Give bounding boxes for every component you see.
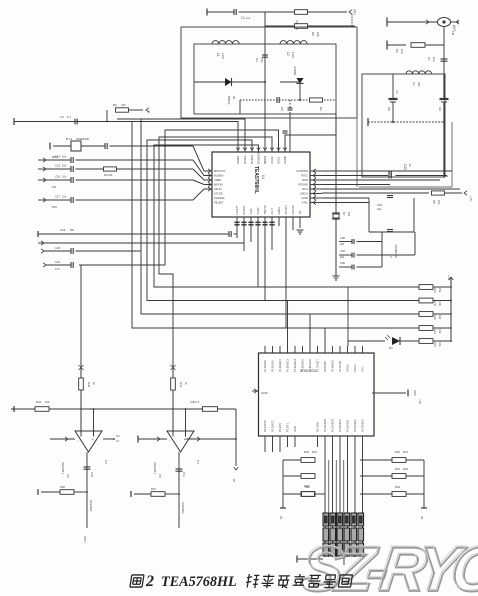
wire <box>239 11 295 13</box>
svg-text:STLED: STLED <box>214 192 223 196</box>
resistor R12 <box>419 312 433 317</box>
wire <box>308 11 348 13</box>
wire <box>165 493 179 495</box>
node +3V arrow <box>349 10 352 14</box>
RF input box <box>362 74 445 177</box>
svg-text:VCC: VCC <box>361 366 365 372</box>
svg-text:WREN: WREN <box>263 156 267 164</box>
capacitor C4 15p <box>262 54 268 56</box>
svg-text:R20: R20 <box>304 450 309 454</box>
wire <box>360 475 392 477</box>
wire <box>362 269 364 346</box>
bus wire 1 <box>132 122 419 329</box>
svg-text:P1.1/AIN1: P1.1/AIN1 <box>271 360 275 372</box>
resistor R31 <box>392 474 406 479</box>
svg-text:RFI2: RFI2 <box>302 178 308 182</box>
svg-text:C20: C20 <box>55 246 61 250</box>
watermark <box>298 535 478 596</box>
svg-text:1n: 1n <box>408 164 412 168</box>
svg-text:P1.4/ADC4: P1.4/ADC4 <box>293 358 297 372</box>
svg-text:RFI1: RFI1 <box>302 187 308 191</box>
inductor L3 <box>406 71 432 74</box>
wire <box>299 83 301 100</box>
wire <box>322 202 369 204</box>
svg-text:TEA5768HL: TEA5768HL <box>253 166 259 194</box>
svg-text:32.768KHZ: 32.768KHZ <box>394 244 398 258</box>
wire <box>129 109 144 111</box>
terminal <box>13 118 15 125</box>
wire <box>49 408 236 410</box>
wire <box>322 197 369 199</box>
svg-text:AFLIN: AFLIN <box>214 187 222 191</box>
wire <box>322 188 460 190</box>
node +3V amp1 <box>80 363 82 377</box>
svg-text:10k: 10k <box>438 302 442 307</box>
IC U1 TEA5768HL body <box>212 152 310 217</box>
svg-text:C8: C8 <box>387 107 391 111</box>
wire amp1 feed <box>80 265 82 430</box>
svg-text:SZ-RYC: SZ-RYC <box>296 534 478 596</box>
resistor R21 <box>301 474 315 479</box>
svg-text:2: 2 <box>145 573 154 590</box>
capacitor C17 <box>70 197 72 203</box>
svg-text:C16: C16 <box>55 175 61 179</box>
svg-text:P2.4/AD12: P2.4/AD12 <box>353 419 357 432</box>
svg-text:CPOUT: CPOUT <box>284 205 288 215</box>
svg-text:+3V: +3V <box>353 8 357 15</box>
svg-text:R11: R11 <box>433 302 437 307</box>
inductor L2 <box>280 41 307 44</box>
IC U1 bottom pin capacitors <box>234 221 239 223</box>
wire <box>243 217 245 251</box>
node VCC terminal <box>407 390 409 397</box>
wire <box>79 264 165 266</box>
svg-text:R40: R40 <box>87 382 91 388</box>
svg-text:SPK L: SPK L <box>83 536 87 544</box>
svg-text:100: 100 <box>400 49 404 54</box>
capacitor C25 22p <box>387 229 393 231</box>
wire <box>292 217 294 230</box>
svg-text:TEA5768HL: TEA5768HL <box>161 574 237 590</box>
svg-text:R13: R13 <box>433 329 437 334</box>
svg-text:10k: 10k <box>438 329 442 334</box>
wire diag <box>193 169 212 180</box>
resistor R45 <box>203 407 218 412</box>
terminal <box>130 491 132 497</box>
svg-text:C22: C22 <box>55 260 61 264</box>
svg-text:P2.1/ADC9: P2.1/ADC9 <box>331 418 335 432</box>
wire <box>359 447 361 460</box>
terminal <box>386 41 388 50</box>
svg-text:22p: 22p <box>340 243 345 246</box>
capacitor C5 <box>276 97 278 103</box>
svg-text:XTAL2: XTAL2 <box>346 364 350 372</box>
svg-text:R6 10k: R6 10k <box>104 173 113 177</box>
wire diag <box>193 189 212 200</box>
svg-text:R46: R46 <box>60 485 65 489</box>
svg-text:VAFR: VAFR <box>256 207 260 214</box>
resistor R4 100 <box>411 43 425 48</box>
svg-text:D3: D3 <box>389 346 393 350</box>
svg-text:U1: U1 <box>261 175 265 179</box>
svg-text:P1.5/ADC5: P1.5/ADC5 <box>301 358 305 372</box>
svg-text:PHASEF: PHASEF <box>214 196 225 200</box>
capacitor C40 <box>84 466 91 468</box>
wire <box>400 340 419 342</box>
svg-text:R31: R31 <box>403 450 408 454</box>
wire <box>93 409 95 431</box>
op-amp U4 TDA7050 <box>167 431 194 452</box>
svg-text:C4: C4 <box>255 58 259 62</box>
terminal <box>13 406 15 412</box>
svg-text:TMUTE: TMUTE <box>263 205 267 214</box>
wire rail <box>322 192 429 194</box>
resistor R6 <box>104 167 117 171</box>
svg-text:P2.5/AD13: P2.5/AD13 <box>361 419 365 432</box>
terminal <box>37 489 39 495</box>
wire <box>178 494 180 528</box>
wire <box>360 493 392 495</box>
wire <box>278 217 280 226</box>
node terminal <box>421 507 427 509</box>
svg-text:10n: 10n <box>62 175 67 179</box>
wire <box>335 114 337 210</box>
svg-text:FM: FM <box>451 31 455 36</box>
svg-text:AFLT: AFLT <box>270 208 274 215</box>
wire <box>264 217 266 301</box>
svg-text:P3.1/TXD: P3.1/TXD <box>338 361 342 372</box>
svg-text:U3: U3 <box>66 474 70 478</box>
varactor D1 BB910 <box>225 78 232 86</box>
resistor R22 <box>301 492 315 497</box>
input terminal <box>43 178 46 182</box>
wire <box>235 409 237 466</box>
wire <box>322 184 390 186</box>
bus wire 4 <box>154 145 419 287</box>
wire <box>74 491 87 493</box>
svg-text:R8: R8 <box>70 228 74 232</box>
node VCC input terminal <box>206 9 208 16</box>
svg-text:L4: L4 <box>395 90 399 94</box>
svg-text:2.2: 2.2 <box>246 16 251 20</box>
svg-text:PILDET: PILDET <box>214 201 224 205</box>
wire <box>282 460 284 506</box>
svg-text:BB910: BB910 <box>293 66 297 75</box>
ceramic filter F1 <box>71 141 81 151</box>
wire <box>335 220 337 276</box>
svg-text:C17: C17 <box>55 195 61 199</box>
resistor R20 <box>301 458 315 463</box>
wire <box>250 217 252 242</box>
svg-text:MPX: MPX <box>52 155 58 159</box>
svg-text:4.7u: 4.7u <box>55 267 61 271</box>
svg-text:10p: 10p <box>432 57 436 62</box>
wire <box>283 493 301 495</box>
svg-text:XTAL1: XTAL1 <box>353 364 357 372</box>
svg-text:P3.3/INT1: P3.3/INT1 <box>271 420 275 432</box>
connector feed wires <box>324 447 326 557</box>
wire <box>265 25 294 27</box>
tuner tank inner box <box>194 44 336 114</box>
svg-text:10n: 10n <box>62 195 67 199</box>
capacitor C15 <box>70 166 72 172</box>
bus wire 2 <box>117 119 245 152</box>
svg-text:P1.3/ADC3: P1.3/ADC3 <box>286 358 290 372</box>
svg-text:P3.7/RD: P3.7/RD <box>316 422 320 432</box>
capacitor C29 <box>351 253 353 258</box>
svg-text:AGND: AGND <box>283 156 287 164</box>
op-amp U3 TDA7050 <box>75 431 102 452</box>
svg-text:C2: C2 <box>116 434 120 438</box>
svg-text:XTAL: XTAL <box>301 201 308 205</box>
svg-text:+3V: +3V <box>418 399 422 404</box>
antenna jack J1 <box>438 18 451 27</box>
wire <box>433 313 451 315</box>
wire <box>81 145 105 147</box>
svg-text:RST/VPP: RST/VPP <box>323 361 327 372</box>
resistor R13 <box>419 326 433 331</box>
svg-text:LIN: LIN <box>52 185 56 189</box>
wire <box>433 327 451 329</box>
svg-text:VAFL: VAFL <box>249 207 253 214</box>
svg-text:C3: C3 <box>60 115 64 119</box>
wire <box>322 175 388 177</box>
inductor L1 <box>212 41 239 44</box>
wire <box>392 102 394 122</box>
svg-text:LOOPSW: LOOPSW <box>296 169 308 173</box>
svg-text:C24: C24 <box>377 203 383 207</box>
node arrow <box>234 467 238 470</box>
wire <box>271 217 273 250</box>
svg-text:RFGND: RFGND <box>298 183 308 187</box>
input terminal <box>43 158 46 162</box>
terminal <box>296 556 298 563</box>
svg-text:C28: C28 <box>340 236 345 240</box>
capacitor C24 22p <box>387 195 393 197</box>
capacitor C26 <box>388 171 390 177</box>
svg-text:L3: L3 <box>412 82 416 86</box>
svg-text:C41: C41 <box>182 472 186 477</box>
svg-text:P2.0/ADC8: P2.0/ADC8 <box>323 418 327 432</box>
svg-text:C30: C30 <box>340 261 345 265</box>
svg-text:+3V: +3V <box>469 196 473 201</box>
svg-text:B F1: B F1 <box>66 137 73 141</box>
capacitor C11 <box>388 172 390 179</box>
svg-text:10k: 10k <box>438 288 442 293</box>
svg-text:GND: GND <box>261 391 269 395</box>
capacitor C14 <box>70 157 72 163</box>
node +3V amp2 <box>172 363 174 377</box>
IC U2 top pin stubs <box>264 346 266 353</box>
capacitor C13 <box>104 143 106 149</box>
svg-text:R47: R47 <box>151 487 156 491</box>
svg-text:R7: R7 <box>342 212 346 216</box>
wire <box>239 100 241 114</box>
wire <box>372 392 406 394</box>
capacitor C9 <box>440 98 449 100</box>
ground <box>297 229 304 231</box>
wire <box>387 44 406 46</box>
wire <box>443 102 445 177</box>
svg-text:R5: R5 <box>432 200 436 204</box>
wire <box>44 242 244 244</box>
svg-text:0V: 0V <box>232 479 236 482</box>
svg-text:GND1: GND1 <box>277 207 281 215</box>
resistor R5 <box>432 191 445 195</box>
wire <box>348 340 385 342</box>
terminal <box>41 241 44 245</box>
svg-text:P3.5/T1: P3.5/T1 <box>286 422 290 432</box>
wire <box>396 175 448 177</box>
IC U2 left pin <box>252 390 259 392</box>
svg-text:RTOUT: RTOUT <box>242 205 246 215</box>
wire <box>236 217 238 238</box>
svg-text:LIMCA: LIMCA <box>300 192 308 196</box>
ground <box>333 275 340 277</box>
wire output <box>178 452 180 494</box>
bus wire 5 <box>159 137 272 430</box>
input terminal <box>43 167 46 171</box>
resistor R1 <box>295 10 308 15</box>
svg-text:10n: 10n <box>62 155 67 159</box>
svg-text:DGND: DGND <box>236 156 240 164</box>
LED D3 <box>392 337 400 345</box>
wire <box>172 391 174 431</box>
svg-text:R4: R4 <box>395 49 399 53</box>
svg-text:R30: R30 <box>395 450 400 454</box>
svg-text:78n: 78n <box>417 82 421 87</box>
capacitor C8 <box>389 98 398 100</box>
wire <box>360 459 392 461</box>
wire <box>351 14 353 27</box>
resistor R41 <box>171 378 176 390</box>
wire <box>185 409 187 431</box>
wire <box>264 12 266 152</box>
wire <box>451 122 453 187</box>
resistor R46 <box>60 490 74 495</box>
capacitor C6 <box>288 107 293 109</box>
svg-text:10n: 10n <box>62 164 67 168</box>
svg-text:R32: R32 <box>395 467 400 471</box>
svg-text:BUSCL: BUSCL <box>243 155 247 164</box>
svg-text:10k: 10k <box>437 200 441 205</box>
svg-text:MPXOUT: MPXOUT <box>214 169 226 173</box>
svg-text:P1.6/ADC6: P1.6/ADC6 <box>308 358 312 372</box>
svg-text:VCC: VCC <box>413 390 417 396</box>
wire <box>324 328 326 346</box>
wire diag <box>193 160 212 176</box>
IC U2 bottom pin stubs <box>264 436 266 447</box>
svg-text:22p: 22p <box>340 256 345 259</box>
svg-text:1/2: 1/2 <box>196 460 200 464</box>
wire <box>368 121 444 123</box>
capacitor C41 <box>176 468 183 470</box>
wire <box>414 232 416 255</box>
wire amp2 out <box>186 438 237 440</box>
svg-text:FM6EF345: FM6EF345 <box>76 137 89 141</box>
svg-text:P3.2/INT0: P3.2/INT0 <box>263 420 267 432</box>
wire <box>287 301 289 347</box>
wire <box>335 210 337 276</box>
wire <box>348 286 419 288</box>
wire output <box>86 452 88 492</box>
capacitor C19 <box>228 231 230 237</box>
svg-text:C29: C29 <box>340 249 345 253</box>
svg-text:C9: C9 <box>438 107 442 111</box>
resistor R30 <box>392 458 406 463</box>
svg-text:P2.2/AD10: P2.2/AD10 <box>338 419 342 432</box>
wire <box>443 74 445 99</box>
svg-text:TAGC: TAGC <box>301 174 308 178</box>
wire <box>50 438 75 440</box>
wire <box>309 314 311 346</box>
svg-text:10k: 10k <box>316 32 320 37</box>
capacitor C3 <box>74 119 76 125</box>
svg-text:L1: L1 <box>216 53 220 57</box>
svg-text:R12: R12 <box>433 315 437 320</box>
input terminal <box>49 143 51 150</box>
svg-text:TDA7050: TDA7050 <box>61 462 65 474</box>
svg-text:2: 2 <box>148 110 150 114</box>
IC U1 top pin arrows <box>236 148 240 151</box>
varactor D2 BB910 <box>296 78 303 83</box>
svg-text:C40: C40 <box>90 472 94 477</box>
wire <box>299 217 301 228</box>
svg-text:UREF: UREF <box>214 178 222 182</box>
capacitor C23 <box>70 262 72 268</box>
capacitor C1 2.2u <box>233 9 235 15</box>
wire <box>232 81 266 83</box>
svg-text:R44: R44 <box>36 400 42 404</box>
svg-text:D1: D1 <box>232 96 236 100</box>
svg-text:10k: 10k <box>438 342 442 347</box>
svg-text:R10: R10 <box>433 288 437 293</box>
svg-text:MPXIN: MPXIN <box>214 183 223 187</box>
svg-text:10u/100V: 10u/100V <box>89 500 93 512</box>
svg-text:BB910: BB910 <box>227 96 231 105</box>
svg-text:C45 0.1: C45 0.1 <box>190 400 200 404</box>
resistor R32 <box>392 492 406 497</box>
svg-text:R48: R48 <box>304 484 309 488</box>
IC U1 right pin stubs <box>310 170 322 172</box>
caption 图2 TEA5768HL 收音模块电路图 <box>130 575 144 587</box>
bus wire 3 <box>147 140 419 301</box>
svg-text:10k: 10k <box>45 400 50 404</box>
svg-text:R3: R3 <box>319 107 323 111</box>
svg-text:1/2: 1/2 <box>104 460 108 464</box>
svg-text:LTOUT: LTOUT <box>235 206 239 215</box>
wire OSC feed <box>285 114 336 152</box>
wire <box>280 81 300 83</box>
svg-text:C15: C15 <box>55 164 61 168</box>
svg-text:BUSDA: BUSDA <box>250 155 254 164</box>
svg-text:L2: L2 <box>286 52 290 56</box>
wire <box>285 217 287 328</box>
wire diag <box>193 146 212 171</box>
resistor R11 <box>419 298 433 303</box>
tuner shield outer box <box>181 27 357 118</box>
wire <box>283 475 301 477</box>
wire antenna drop <box>443 27 445 75</box>
resistor R44 <box>35 407 49 412</box>
wire <box>433 300 451 302</box>
connector inner pins <box>325 516 363 523</box>
wire <box>433 286 451 288</box>
wire <box>80 391 82 431</box>
svg-text:P1.0/AIN0: P1.0/AIN0 <box>263 360 267 372</box>
svg-text:0.1: 0.1 <box>116 440 120 443</box>
wire <box>343 558 345 565</box>
